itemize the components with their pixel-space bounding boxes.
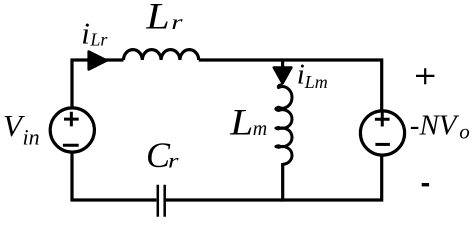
svg-text:m: m [253,118,267,140]
wire: node A stub down to iLm arrow [281,60,284,67]
current arrow iLm [274,68,292,84]
wire: Vin bottom terminal to bottom-left corner, across to Cr left plate [72,153,156,201]
svg-text:-NV: -NV [410,110,460,142]
svg-text:r: r [168,151,179,173]
capacitor Cr [158,185,165,217]
voltage source -NVo [360,111,404,155]
-NVo - terminal mark [375,143,390,146]
voltage source Vin [50,108,94,152]
-NVo + terminal mark [375,112,390,126]
wire: Cr right plate across bottom to bottom-right corner, up to -NVo source [166,156,382,200]
inductor Lr [124,50,199,60]
wire: node A across to top-right corner, down to -NVo source [281,60,382,111]
svg-text:Lr: Lr [89,30,108,50]
svg-text:L: L [145,0,170,37]
wire: Lr to node A (Lm branch tap) [199,58,283,61]
wire: Vin top terminal up to top-left corner, across to Lr [72,60,124,108]
inductor Lm [276,85,292,165]
svg-text:in: in [23,124,40,149]
Vin + terminal mark [64,112,79,127]
svg-text:i: i [81,16,90,51]
label + output polarity [416,68,434,84]
svg-text:r: r [171,12,183,34]
Vin - terminal mark [63,144,79,147]
svg-text:Lm: Lm [304,72,328,92]
label - output polarity [422,183,429,186]
current arrow iLr [89,52,107,70]
svg-text:L: L [229,103,253,144]
svg-text:o: o [459,120,470,144]
wire: Lm bottom down to bottom wire junction [281,163,284,202]
svg-text:i: i [297,59,305,91]
